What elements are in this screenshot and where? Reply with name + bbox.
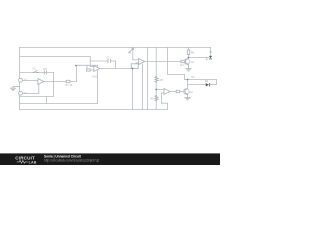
wire RC top of A1 box [20, 72, 54, 74]
ground Q1 emitter [186, 69, 192, 71]
transistor Q2 [183, 89, 189, 95]
wire A3 output to Q1 base [145, 61, 181, 63]
resistor R8 collector of Q1 [187, 50, 189, 55]
wire A1 box bottom tap [46, 97, 48, 104]
node dot Q1 collector [188, 57, 190, 59]
footer bar [0, 153, 220, 165]
wire Q1 base join [185, 61, 186, 63]
resistor R5 [155, 77, 158, 83]
wire Q1 node to LED1 [189, 57, 209, 59]
wire bottom rail [20, 109, 168, 111]
svg-text:Q2: Q2 [189, 90, 193, 94]
wire vertical x142 [142, 64, 144, 110]
op-amp OA1 [38, 79, 44, 85]
wire top rail [20, 47, 211, 49]
resistor R4 base of Q1 [181, 60, 185, 62]
svg-text:OA2: OA2 [92, 74, 98, 78]
wire A2 output [100, 68, 133, 70]
svg-text:R6: R6 [150, 97, 154, 101]
LED D1 arrows [206, 57, 208, 60]
ground left [10, 87, 19, 91]
resistor R1 [66, 80, 70, 82]
svg-text:R8: R8 [191, 50, 195, 54]
node dot A2out-R3 junction [132, 68, 134, 70]
LED D2 [206, 83, 209, 86]
wire A2 plus branch [87, 65, 94, 70]
wire A3 inverting feed [133, 48, 139, 60]
wire A2 feedback loop y61 [90, 60, 115, 62]
wire vertical from box R3 to bottom rail [132, 68, 134, 109]
svg-text:V1: V1 [24, 77, 28, 81]
capacitor C2 in A2 feedback [108, 59, 110, 62]
node dot divider tap [155, 89, 157, 91]
resistor R7 base of Q2 [176, 90, 180, 92]
svg-text:Q1: Q1 [191, 60, 195, 64]
wire bottom left return [20, 65, 98, 103]
wire A1 non-inverting input [23, 85, 39, 94]
wire LED1 top feed [210, 48, 212, 56]
wire left supply vertical [19, 48, 21, 110]
svg-text:V2: V2 [24, 91, 28, 95]
svg-text:LAB: LAB [29, 160, 37, 164]
switch SW1 on top wire [34, 70, 38, 72]
svg-text:R1 1k: R1 1k [65, 83, 72, 87]
LED D1 [209, 56, 212, 58]
wire node B horizontal y65 [77, 64, 98, 66]
svg-text:D2: D2 [191, 75, 195, 79]
svg-text:R9: R9 [43, 67, 47, 71]
capacitor C2 on top wire [44, 71, 46, 74]
wire M2 branch [185, 80, 217, 85]
wire A4 plus input [162, 93, 168, 110]
wire A1 inverting input [23, 80, 38, 82]
wire A4 inverting input [156, 89, 164, 91]
wire Q2 collector up [187, 80, 189, 89]
svg-text:D1: D1 [209, 50, 213, 54]
op-amp OA2 [94, 66, 100, 72]
op-amp OA3 [139, 59, 145, 65]
wire A1 box right and bottom [20, 73, 54, 97]
wire A3 plus stub [136, 62, 139, 65]
wire Q1 collector up [188, 48, 190, 59]
svg-text:R4: R4 [180, 63, 184, 67]
resistor R6 [155, 95, 158, 101]
voltage source V2 [19, 91, 23, 95]
wire vertical x148 [147, 48, 149, 110]
wire A1 output [44, 65, 77, 81]
svg-text:.. ..: .. .. [20, 101, 24, 104]
svg-text:S1: S1 [33, 67, 37, 71]
wire A4 output [170, 91, 185, 93]
wire vertical x168 upper [168, 48, 185, 80]
ground Q2 emitter [185, 97, 191, 99]
svg-text:http://circuitlab.com/circuit/: http://circuitlab.com/circuit/csc2hjk37q… [44, 159, 99, 163]
supply arrow flag [129, 48, 134, 53]
node dot Q2 collector [187, 79, 189, 81]
wire feedback rail y57 [20, 57, 94, 67]
wire LED2 anode [188, 84, 206, 86]
LED D2 arrows [205, 80, 208, 82]
wire divider chain x156 [155, 48, 157, 110]
node dot oscillator out [75, 65, 77, 67]
transistor Q1 [184, 59, 190, 65]
resistor R3 box under OA3 [131, 64, 138, 69]
svg-text:R5: R5 [160, 78, 164, 82]
svg-text:C2: C2 [106, 55, 110, 59]
resistor R2 into A2 plus [87, 69, 91, 71]
wire A2 output feedback riser [115, 61, 117, 69]
op-amp OA4 [164, 89, 170, 95]
voltage source V1 [19, 78, 23, 82]
